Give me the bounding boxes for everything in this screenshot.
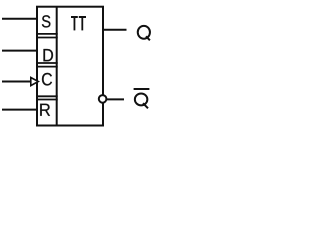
flip-flop U1 body (37, 7, 103, 126)
D cell top divider (36, 37, 58, 39)
D/C cell divider (36, 62, 58, 64)
S/D cell divider (36, 33, 58, 35)
node label Q-bar (135, 93, 148, 108)
wire R input (2, 109, 36, 111)
node label Q (138, 26, 150, 40)
wire Q-bar output (107, 98, 124, 100)
wire S input (2, 18, 36, 20)
C cell top divider (36, 66, 58, 68)
control-column separator (56, 7, 58, 126)
inversion bubble on Q-bar (99, 95, 107, 103)
R cell top divider (36, 99, 58, 101)
pin label D (44, 49, 54, 61)
pin label S (42, 15, 51, 27)
Q-bar overline (134, 88, 150, 90)
wire Q output (104, 29, 127, 31)
C/R cell divider (36, 95, 58, 97)
pin label C (42, 73, 52, 86)
dynamic-input triangle on C (31, 78, 39, 86)
wire D input (2, 50, 36, 52)
pin label R (40, 104, 50, 116)
device label TT (71, 16, 86, 30)
wire C input (2, 81, 31, 83)
